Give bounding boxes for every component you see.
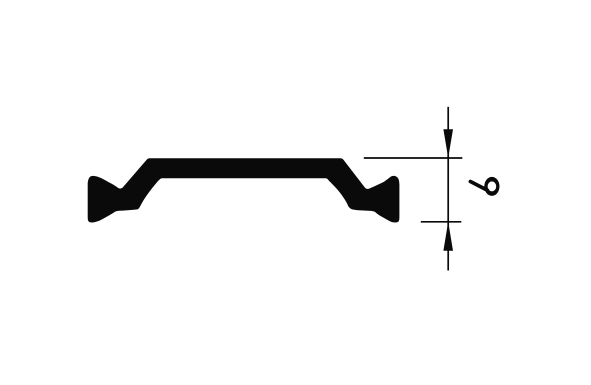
arrowhead top: [443, 129, 453, 158]
arrowhead bottom: [443, 222, 453, 251]
dimension text 6: [470, 177, 499, 196]
profile cross-section: [88, 158, 400, 222]
extension line bottom: [421, 221, 462, 223]
extension line top: [364, 157, 463, 159]
dimension line: [447, 107, 449, 271]
